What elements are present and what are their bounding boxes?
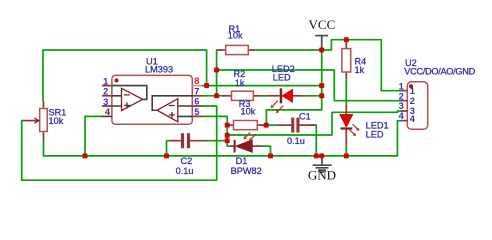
- svg-text:2: 2: [399, 92, 404, 102]
- wire: DO net row y70 then descent and run to U2 pin 2: [217, 70, 403, 101]
- resistor R2: [223, 91, 262, 100]
- junction (227.2,140.8) C2 right on chain: [225, 138, 230, 143]
- capacitor C1: [277, 118, 315, 133]
- svg-text:3: 3: [399, 101, 404, 111]
- svg-text:1: 1: [103, 76, 108, 86]
- wire: R1 left column down through DO row to R2/pin7 row: [217, 50, 221, 96]
- wire: SR1 top to top rail, rail across, and descent to pin8 row: [43, 50, 207, 101]
- resistor R3: [227, 121, 263, 130]
- svg-text:7: 7: [194, 86, 199, 96]
- wire: R1 right to VCC junction: [254, 49, 322, 51]
- connector U2: [401, 82, 427, 130]
- svg-text:D1: D1: [236, 156, 248, 166]
- LED LED1: [340, 105, 360, 146]
- wire: pin 6 down and around to SR1 wiper (row B): [22, 106, 217, 180]
- wire: C2 right lead to divider chain: [205, 140, 228, 142]
- op-amp B minus plus marks: [169, 106, 175, 119]
- U1 pin 4 stub (black): [102, 115, 112, 117]
- svg-text:4: 4: [410, 114, 416, 124]
- junction (321.7,155.9) GND symbol on GND row: [319, 153, 324, 158]
- op-amp B input lines: [178, 106, 193, 116]
- wire: VCC junction step up and run to R4 top and U2 pin 1: [322, 40, 403, 91]
- svg-text:4: 4: [105, 107, 111, 117]
- wire: R3 right to C1 left with riser to R2/LED2 row: [261, 124, 277, 126]
- wire: U1 pin 4 to GND row: [85, 116, 102, 155]
- svg-text:LED: LED: [273, 72, 291, 82]
- svg-text:0.1u: 0.1u: [176, 166, 194, 176]
- potentiometer SR1: [34, 101, 47, 140]
- svg-text:3: 3: [103, 97, 108, 107]
- junction (216.6,70) DO tap on R1 column: [214, 68, 219, 73]
- svg-text:VCC/DO/AO/GND: VCC/DO/AO/GND: [404, 66, 475, 76]
- svg-text:1: 1: [399, 81, 404, 91]
- LED LED2: [267, 88, 302, 113]
- junction (216.6,95.8) R1 column to pin7/R2: [214, 93, 219, 98]
- svg-text:1k: 1k: [355, 65, 365, 75]
- svg-text:10k: 10k: [49, 116, 64, 126]
- op-amp A output routing to pin 1: [112, 86, 147, 100]
- U1 pin1 marker dot: [115, 78, 119, 82]
- wire: LED2 right to VCC column: [302, 95, 322, 97]
- svg-text:LM393: LM393: [145, 65, 173, 75]
- wire: AO row from chain, riser and run to U2 pin 3: [227, 111, 403, 135]
- svg-text:6: 6: [194, 97, 199, 107]
- wire: pin 8 row from U1 to VCC column: [202, 85, 322, 87]
- op-amp B triangle: [157, 99, 178, 122]
- svg-text:1k: 1k: [235, 78, 245, 88]
- wire: R4 bottom to LED1 top: [345, 78, 347, 107]
- junction (321.7,85.6) pin8 row to VCC column: [319, 83, 324, 88]
- wire: VCC column from T symbol to LED2 row: [321, 50, 323, 96]
- wire: pin 7 to R2: [202, 95, 224, 97]
- junction (85,155.9) U1 pin4 on GND row: [83, 153, 88, 158]
- wire: SR1 wiper stub: [23, 120, 38, 122]
- wire: chain to D1 cathode: [227, 141, 232, 146]
- resistor R1: [218, 45, 255, 54]
- junction (346.3,155.9) LED1 bottom on GND row: [344, 153, 349, 158]
- op-amp A triangle: [122, 88, 143, 110]
- junction (166.5,155.9) C2 left on GND row: [164, 153, 169, 158]
- junction (227.2,125.1) R3 left on chain: [225, 123, 230, 128]
- wire: VCC branch from LED2 junction down, left under LED2 arrows, to R3/C1 node: [266, 96, 321, 125]
- op-amp A minus plus marks: [124, 95, 130, 109]
- wire: C1 right lead down to GND row: [308, 125, 317, 156]
- capacitor C2: [170, 133, 206, 148]
- wire: LED1 bottom to GND row: [345, 146, 347, 156]
- junction (227.2,135.2) AO row tap: [225, 133, 230, 138]
- junction (206.6,85.5) top rail to pin8 row: [204, 83, 209, 88]
- svg-text:2: 2: [103, 87, 108, 97]
- junction (266.2,125.1) R3 right C1 left: [264, 123, 269, 128]
- wire: R2 right to LED2: [260, 95, 269, 97]
- wire: GND row A from SR1 bottom to U2 pin 4: [44, 121, 404, 156]
- VCC power symbol: [315, 36, 328, 49]
- junction (321.7,95.8) LED2 to VCC column: [319, 93, 324, 98]
- svg-text:5: 5: [194, 107, 199, 117]
- svg-text:BPW82: BPW82: [231, 166, 262, 176]
- junction (321.7,50) VCC node: [319, 48, 324, 53]
- wire: pin 5 to divider chain column: [202, 116, 228, 140]
- op-amp B output routing to pin 7: [152, 96, 192, 110]
- wire: C2 left lead to GND row: [167, 141, 175, 156]
- svg-text:C2: C2: [181, 156, 193, 166]
- svg-text:0.1u: 0.1u: [287, 136, 305, 146]
- svg-text:C1: C1: [299, 111, 311, 121]
- svg-text:8: 8: [194, 76, 199, 86]
- U1 pin stubs left: [102, 86, 112, 106]
- photodiode D1: [231, 133, 262, 153]
- U1 pin stubs right: [192, 85, 202, 87]
- op-amp A input lines: [112, 96, 122, 106]
- junction (316.3,155.9) C1 right on GND row: [314, 153, 319, 158]
- svg-text:LED: LED: [366, 129, 384, 139]
- junction (346.3,39.7) R4 top on VCC run: [344, 37, 349, 42]
- svg-text:2: 2: [410, 96, 415, 106]
- junction (270.5,155.9) D1 anode on GND row: [268, 153, 273, 158]
- svg-text:GND: GND: [308, 168, 336, 183]
- svg-text:10k: 10k: [228, 31, 243, 41]
- svg-text:VCC: VCC: [309, 17, 336, 32]
- GND ground symbol: [313, 156, 332, 172]
- op-amp U1 body: [112, 75, 192, 124]
- svg-text:4: 4: [399, 111, 405, 121]
- wire: D1 anode down to GND row: [262, 146, 271, 156]
- svg-text:1: 1: [410, 86, 415, 96]
- svg-text:10k: 10k: [241, 107, 256, 117]
- resistor R4: [342, 41, 351, 79]
